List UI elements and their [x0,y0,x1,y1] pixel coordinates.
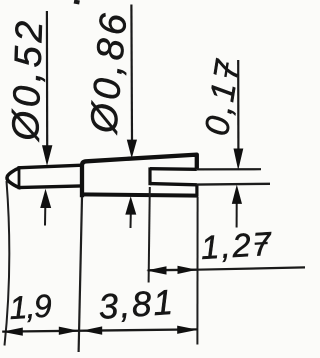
label 0,17 (rotated) [198,55,248,138]
pin tip tangent line [18,167,21,189]
shaft bottom edge [18,186,83,188]
crossbar of 7 in 0,17 [225,63,227,77]
pin tip cone [7,168,19,188]
label 1,9 [8,287,53,326]
tongue top line outside body [197,168,261,170]
slot end vertical [148,167,151,185]
shaft top edge [18,165,83,168]
bottom dimension line (1,9 and 3,81) [2,329,198,331]
tongue top line inside slot [150,167,197,171]
body bottom right step [195,185,198,197]
counter arrow under body [130,213,132,228]
tongue bottom line inside slot [150,184,197,185]
leader line for Ø0,86 [130,5,133,142]
extension line from pin tip (left, for 1,9) [5,181,10,346]
dimension line 1,27 [148,269,197,272]
arrowhead down at shaft top [42,145,52,166]
counter arrow under shaft [44,206,46,226]
svg-text:1,27: 1,27 [200,225,274,266]
svg-text:1,9: 1,9 [8,287,53,326]
small tick at top edge [74,2,80,3]
arrowhead right of 1,27 [178,266,197,274]
dimension line 1,27 extension to right [197,267,305,269]
counter arrow under tongue (0,17) [236,203,238,228]
arrowhead down at body top [127,140,137,159]
label 1,27 [200,225,274,266]
arrowhead down at tongue top [234,149,244,171]
extension line at slot end (1,27 left) [149,187,150,283]
arrowhead far right (3,81) [177,326,198,334]
tongue bottom line outside body [197,183,270,186]
extension line at body right end [196,197,198,345]
label Ø0,86 (rotated) [83,8,136,137]
arrowhead pointing left at middle (3,81) [82,326,102,334]
extension line at shaft/body junction [79,197,82,352]
leader line for 0,17 [237,60,239,153]
leader line for Ø0,52 [46,11,48,150]
label 3,81 [97,283,176,327]
svg-text:3,81: 3,81 [97,283,176,327]
label Ø0,52 (rotated) [5,16,51,143]
body bottom edge [80,194,198,195]
body outline (left edge, top edge, right step) [82,155,197,198]
arrowhead pointing right at middle (1,9) [59,327,79,335]
arrowhead far left (1,9) [2,328,23,336]
svg-text:Ø0,52: Ø0,52 [5,16,51,143]
arrowhead left of 1,27 [146,266,166,274]
